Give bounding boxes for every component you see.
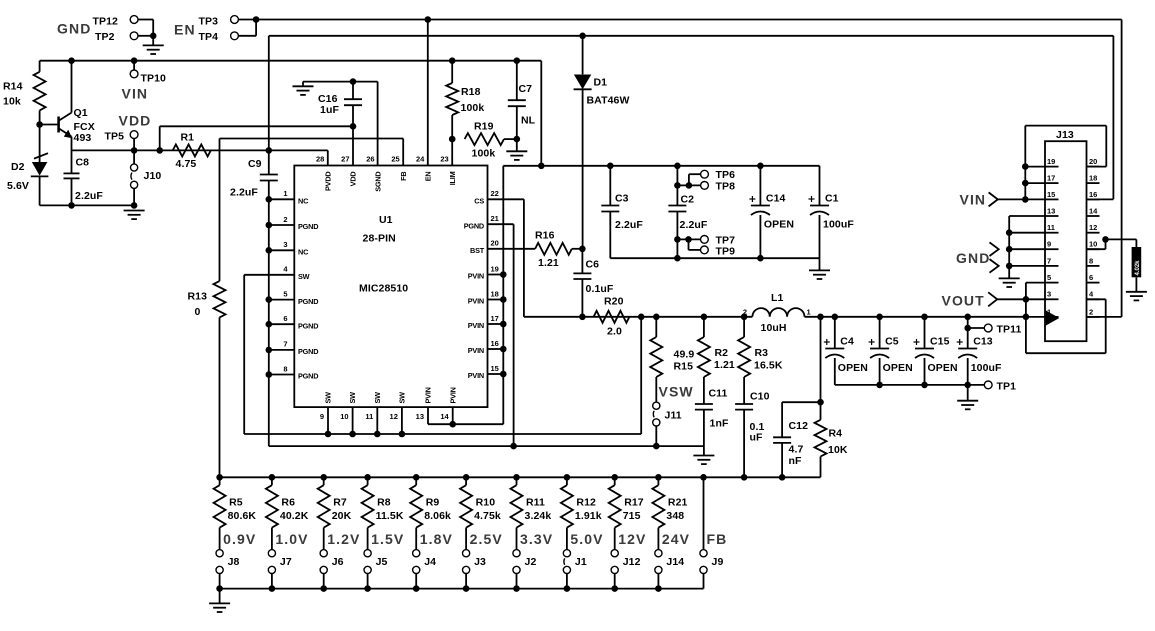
svg-text:20: 20 <box>491 239 499 248</box>
svg-text:100k: 100k <box>461 102 485 114</box>
svg-text:VSW: VSW <box>659 384 694 400</box>
svg-text:MIC28510: MIC28510 <box>359 283 408 295</box>
svg-text:TP8: TP8 <box>716 181 736 193</box>
svg-text:12V: 12V <box>618 531 646 547</box>
svg-text:49.9: 49.9 <box>674 349 695 361</box>
svg-text:11: 11 <box>1047 223 1055 232</box>
svg-text:10: 10 <box>340 412 348 421</box>
svg-text:C8: C8 <box>76 157 90 169</box>
svg-text:10: 10 <box>1089 240 1097 249</box>
svg-text:CS: CS <box>474 197 484 206</box>
svg-text:20K: 20K <box>332 510 352 522</box>
svg-text:6: 6 <box>283 314 287 323</box>
svg-text:VOUT: VOUT <box>942 293 985 309</box>
svg-text:27: 27 <box>341 155 349 164</box>
svg-text:R19: R19 <box>474 121 494 133</box>
svg-text:SW: SW <box>373 392 382 404</box>
svg-text:15: 15 <box>1047 190 1055 199</box>
svg-text:15: 15 <box>491 364 499 373</box>
svg-text:12: 12 <box>390 412 398 421</box>
svg-text:Q1: Q1 <box>74 107 88 119</box>
svg-text:1.2V: 1.2V <box>327 531 360 547</box>
svg-text:13: 13 <box>1047 206 1055 215</box>
svg-text:PVIN: PVIN <box>468 346 484 355</box>
svg-text:TP9: TP9 <box>716 246 736 258</box>
svg-text:1: 1 <box>807 308 811 317</box>
svg-text:J2: J2 <box>525 556 537 568</box>
svg-text:28: 28 <box>316 155 324 164</box>
svg-text:OPEN: OPEN <box>764 219 794 231</box>
svg-text:1.0V: 1.0V <box>275 531 308 547</box>
svg-text:PVIN: PVIN <box>448 387 457 403</box>
svg-text:1: 1 <box>283 189 287 198</box>
svg-text:10K: 10K <box>828 444 848 456</box>
svg-text:J5: J5 <box>376 556 388 568</box>
svg-text:4.75: 4.75 <box>176 158 197 170</box>
svg-text:5.0V: 5.0V <box>570 531 603 547</box>
svg-text:R15: R15 <box>674 361 694 373</box>
svg-text:6: 6 <box>1089 273 1093 282</box>
svg-text:PGND: PGND <box>298 347 318 356</box>
svg-text:C1: C1 <box>825 193 839 205</box>
svg-text:1nF: 1nF <box>710 418 729 430</box>
svg-text:SW: SW <box>398 392 407 404</box>
svg-text:2.2uF: 2.2uF <box>615 219 643 231</box>
svg-text:BST: BST <box>470 246 485 255</box>
svg-text:C10: C10 <box>750 391 770 403</box>
svg-text:18: 18 <box>491 289 499 298</box>
svg-text:715: 715 <box>623 510 641 522</box>
svg-text:2.2uF: 2.2uF <box>230 187 258 199</box>
svg-text:1.91k: 1.91k <box>575 510 602 522</box>
svg-text:J14: J14 <box>666 556 684 568</box>
svg-text:5: 5 <box>283 289 287 298</box>
svg-text:0.1uF: 0.1uF <box>586 283 614 295</box>
svg-text:26: 26 <box>366 155 374 164</box>
svg-text:C9: C9 <box>248 158 262 170</box>
svg-text:28-PIN: 28-PIN <box>363 232 396 244</box>
svg-text:19: 19 <box>491 264 499 273</box>
svg-text:2: 2 <box>743 308 747 317</box>
svg-text:C14: C14 <box>766 193 786 205</box>
svg-text:3.24k: 3.24k <box>525 510 552 522</box>
svg-text:VDD: VDD <box>349 172 358 187</box>
svg-text:R12: R12 <box>576 497 596 509</box>
svg-text:18: 18 <box>1089 174 1097 183</box>
svg-text:2.2uF: 2.2uF <box>75 190 103 202</box>
svg-text:TP11: TP11 <box>997 324 1022 336</box>
svg-text:J12: J12 <box>623 556 641 568</box>
svg-text:14: 14 <box>440 412 449 421</box>
svg-text:2.0: 2.0 <box>607 326 622 338</box>
svg-text:16: 16 <box>491 339 499 348</box>
svg-text:C3: C3 <box>615 193 629 205</box>
svg-text:D2: D2 <box>11 161 25 173</box>
svg-text:4.7: 4.7 <box>789 444 804 456</box>
svg-text:R11: R11 <box>526 497 545 509</box>
svg-text:12: 12 <box>1089 223 1097 232</box>
svg-text:8: 8 <box>283 364 287 373</box>
svg-text:R6: R6 <box>281 497 295 509</box>
svg-text:23: 23 <box>440 155 448 164</box>
svg-text:16: 16 <box>1089 190 1097 199</box>
svg-text:J7: J7 <box>280 556 292 568</box>
svg-text:J13: J13 <box>1056 129 1074 141</box>
svg-text:TP5: TP5 <box>105 131 125 143</box>
svg-text:GND: GND <box>57 21 91 37</box>
svg-text:L1: L1 <box>771 292 784 304</box>
svg-text:GND: GND <box>956 250 990 266</box>
svg-text:TP6: TP6 <box>716 169 736 181</box>
svg-text:TP4: TP4 <box>199 31 219 43</box>
svg-text:493: 493 <box>74 132 92 144</box>
svg-text:1.8V: 1.8V <box>420 531 453 547</box>
svg-text:22: 22 <box>491 189 499 198</box>
svg-text:C12: C12 <box>789 420 809 432</box>
svg-text:SGND: SGND <box>374 172 383 192</box>
svg-text:PVDD: PVDD <box>323 172 332 191</box>
svg-text:EN: EN <box>423 172 432 182</box>
svg-text:25: 25 <box>391 155 399 164</box>
svg-text:BAT46W: BAT46W <box>587 95 630 107</box>
svg-text:4.75k: 4.75k <box>474 510 501 522</box>
svg-text:C15: C15 <box>930 336 950 348</box>
svg-text:R18: R18 <box>461 86 481 98</box>
svg-text:J6: J6 <box>332 556 344 568</box>
svg-text:PGND: PGND <box>464 221 484 230</box>
svg-text:TP12: TP12 <box>93 15 119 27</box>
svg-text:11.5K: 11.5K <box>376 510 404 522</box>
svg-text:TP1: TP1 <box>997 380 1017 392</box>
svg-text:uF: uF <box>750 432 764 444</box>
svg-text:OPEN: OPEN <box>928 362 958 374</box>
svg-text:C4: C4 <box>840 336 854 348</box>
svg-text:OPEN: OPEN <box>883 362 913 374</box>
svg-text:R2: R2 <box>715 347 729 359</box>
svg-text:R17: R17 <box>624 497 644 509</box>
svg-text:40.2K: 40.2K <box>280 510 309 522</box>
svg-text:3: 3 <box>283 240 287 249</box>
svg-text:7: 7 <box>1047 256 1051 265</box>
svg-text:2: 2 <box>283 215 287 224</box>
svg-text:R5: R5 <box>229 497 243 509</box>
svg-text:J11: J11 <box>665 410 682 422</box>
svg-text:8: 8 <box>1089 256 1093 265</box>
svg-text:PGND: PGND <box>298 372 318 381</box>
svg-text:J10: J10 <box>144 170 162 182</box>
svg-text:SW: SW <box>298 272 310 281</box>
svg-text:20: 20 <box>1089 157 1097 166</box>
svg-text:3: 3 <box>1047 290 1051 299</box>
svg-text:C6: C6 <box>586 259 600 271</box>
svg-text:R3: R3 <box>755 347 769 359</box>
svg-text:PVIN: PVIN <box>468 297 484 306</box>
svg-text:R20: R20 <box>604 296 624 308</box>
svg-text:24V: 24V <box>662 531 690 547</box>
svg-text:J4: J4 <box>424 556 436 568</box>
svg-text:13: 13 <box>416 412 424 421</box>
svg-text:TP7: TP7 <box>716 234 736 246</box>
svg-text:R14: R14 <box>3 81 23 93</box>
svg-text:14: 14 <box>1089 206 1098 215</box>
svg-text:17: 17 <box>1047 174 1055 183</box>
svg-text:R4: R4 <box>829 428 843 440</box>
svg-text:2.5V: 2.5V <box>470 531 503 547</box>
svg-text:2: 2 <box>1089 307 1093 316</box>
svg-text:16.5K: 16.5K <box>754 360 783 372</box>
svg-text:R16: R16 <box>535 230 555 242</box>
svg-text:7: 7 <box>283 340 287 349</box>
svg-text:PGND: PGND <box>298 297 318 306</box>
svg-text:ILIM: ILIM <box>448 171 457 185</box>
svg-text:100uF: 100uF <box>971 362 1002 374</box>
svg-text:4.02k: 4.02k <box>1135 260 1141 276</box>
svg-text:U1: U1 <box>379 214 393 226</box>
svg-text:EN: EN <box>174 21 196 37</box>
svg-text:PVIN: PVIN <box>468 371 484 380</box>
svg-text:R1: R1 <box>181 131 195 143</box>
svg-text:J3: J3 <box>474 556 486 568</box>
svg-text:11: 11 <box>365 412 373 421</box>
svg-text:FB: FB <box>707 531 728 547</box>
svg-text:C7: C7 <box>519 83 533 95</box>
svg-text:R8: R8 <box>377 497 391 509</box>
svg-text:R21: R21 <box>668 497 688 509</box>
svg-text:3.3V: 3.3V <box>520 531 553 547</box>
svg-text:1.21: 1.21 <box>714 359 735 371</box>
svg-text:TP2: TP2 <box>95 31 115 43</box>
svg-text:OPEN: OPEN <box>838 362 868 374</box>
svg-text:PVIN: PVIN <box>468 321 484 330</box>
svg-text:R9: R9 <box>426 497 440 509</box>
svg-text:TP3: TP3 <box>199 15 219 27</box>
svg-text:PGND: PGND <box>298 222 318 231</box>
svg-text:10uH: 10uH <box>761 322 787 334</box>
svg-text:nF: nF <box>789 455 803 467</box>
svg-text:PVIN: PVIN <box>424 387 433 403</box>
svg-text:1uF: 1uF <box>320 104 339 116</box>
svg-text:FB: FB <box>399 172 408 181</box>
svg-text:5: 5 <box>1047 273 1051 282</box>
svg-text:1.5V: 1.5V <box>371 531 404 547</box>
svg-text:5.6V: 5.6V <box>7 180 29 192</box>
svg-text:VDD: VDD <box>119 113 152 129</box>
svg-text:0: 0 <box>195 306 201 318</box>
svg-text:C5: C5 <box>885 336 899 348</box>
svg-text:NC: NC <box>298 248 309 257</box>
svg-text:VIN: VIN <box>960 191 987 207</box>
svg-text:R13: R13 <box>188 291 208 303</box>
svg-text:8.06k: 8.06k <box>424 510 451 522</box>
svg-text:80.6K: 80.6K <box>228 510 257 522</box>
svg-text:D1: D1 <box>594 77 608 89</box>
svg-text:J8: J8 <box>228 556 240 568</box>
svg-text:J9: J9 <box>712 556 724 568</box>
svg-text:10k: 10k <box>3 96 21 108</box>
svg-text:SW: SW <box>348 392 357 404</box>
svg-text:100k: 100k <box>472 148 496 160</box>
svg-text:19: 19 <box>1047 157 1055 166</box>
svg-text:21: 21 <box>491 214 499 223</box>
svg-text:C2: C2 <box>681 194 695 206</box>
svg-text:PGND: PGND <box>298 321 318 330</box>
svg-text:24: 24 <box>416 155 425 164</box>
svg-text:C13: C13 <box>973 336 993 348</box>
svg-text:NC: NC <box>298 197 309 206</box>
svg-text:1.21: 1.21 <box>538 257 559 269</box>
svg-text:100uF: 100uF <box>823 219 854 231</box>
svg-text:PVIN: PVIN <box>468 272 484 281</box>
svg-text:C11: C11 <box>709 388 728 400</box>
svg-text:R10: R10 <box>476 497 496 509</box>
svg-text:9: 9 <box>320 412 324 421</box>
svg-text:TP10: TP10 <box>141 72 167 84</box>
svg-text:9: 9 <box>1047 240 1051 249</box>
svg-text:348: 348 <box>666 510 684 522</box>
svg-text:2.2uF: 2.2uF <box>680 219 708 231</box>
svg-text:R7: R7 <box>333 497 347 509</box>
svg-text:17: 17 <box>491 314 499 323</box>
svg-text:SW: SW <box>324 392 333 404</box>
svg-text:0.9V: 0.9V <box>223 531 256 547</box>
svg-text:VIN: VIN <box>122 86 149 102</box>
svg-text:J1: J1 <box>575 556 587 568</box>
svg-text:NL: NL <box>521 115 536 127</box>
